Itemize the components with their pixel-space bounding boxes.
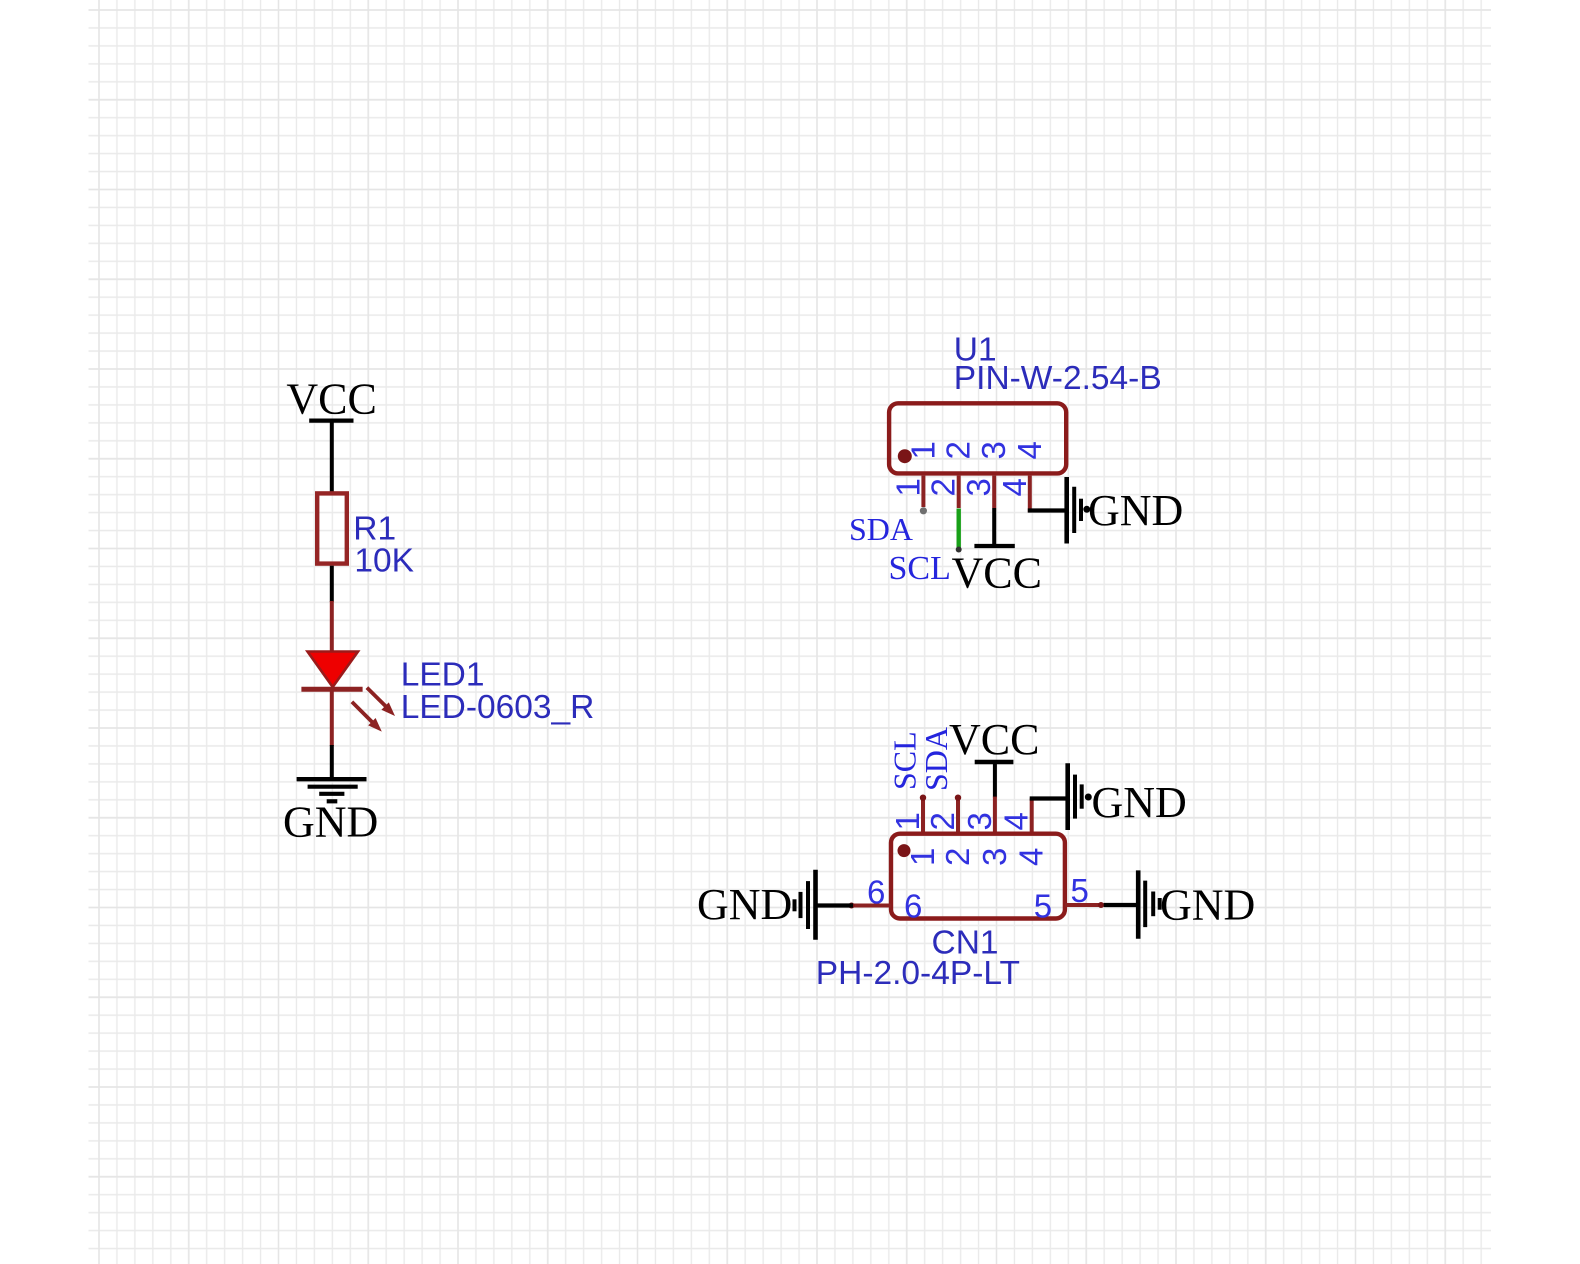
svg-text:PH-2.0-4P-LT: PH-2.0-4P-LT [816, 955, 1020, 992]
ground symbol (left) [297, 779, 367, 801]
svg-text:GND: GND [1092, 778, 1187, 827]
svg-text:PIN-W-2.54-B: PIN-W-2.54-B [954, 360, 1162, 397]
svg-text:4: 4 [998, 812, 1035, 830]
svg-text:LED-0603_R: LED-0603_R [401, 689, 595, 726]
CN1 pin 6 [849, 903, 892, 909]
svg-text:3: 3 [960, 478, 997, 496]
label 6 (outside) [867, 874, 885, 911]
wire LED1 to ground [330, 689, 334, 778]
wire VCC to CN1 pin3 [993, 762, 997, 798]
net label SDA [849, 511, 913, 547]
svg-text:LED1: LED1 [401, 656, 485, 693]
net label SCL [889, 550, 951, 587]
label GND (CN1 right) [1160, 881, 1255, 930]
wire pin4 to GND [1028, 508, 1065, 512]
svg-text:1: 1 [904, 848, 941, 866]
label LED-0603_R [401, 689, 595, 726]
connector U1 body [889, 403, 1066, 473]
svg-text:2: 2 [940, 441, 977, 459]
svg-text:GND: GND [1088, 486, 1183, 535]
svg-text:1: 1 [904, 441, 941, 459]
label VCC (left) [286, 374, 376, 423]
svg-text:10K: 10K [354, 542, 414, 579]
label GND (U1) [1088, 486, 1183, 535]
CN1 pin 5 [1065, 902, 1104, 908]
U1 pin 3 [992, 476, 996, 508]
svg-text:GND: GND [1160, 881, 1255, 930]
wire R1 to LED1 [330, 566, 334, 602]
svg-text:SCL: SCL [889, 550, 951, 587]
svg-text:4: 4 [1011, 441, 1048, 459]
svg-text:4: 4 [996, 478, 1033, 496]
svg-text:3: 3 [975, 441, 1012, 459]
wire CN1 pin6 to GND [816, 903, 854, 907]
net label SDA (rotated, CN1 pin2) [918, 727, 954, 791]
svg-text:GND: GND [697, 880, 792, 929]
U1 pin 1 [920, 476, 927, 515]
label CN1 [932, 925, 999, 962]
U1 pin 2 [957, 476, 961, 508]
svg-text:6: 6 [867, 874, 885, 911]
label U1 [954, 331, 997, 368]
ground symbol (CN1 right) [1138, 870, 1160, 938]
power symbol VCC (left) [309, 419, 353, 423]
svg-text:1: 1 [889, 812, 926, 830]
svg-text:2: 2 [939, 848, 976, 866]
svg-text:3: 3 [976, 848, 1013, 866]
label VCC (U1) [952, 549, 1042, 598]
label 5 (outside) [1071, 872, 1089, 909]
U1 pin 4 [1028, 476, 1032, 513]
LED LED1 [301, 652, 395, 732]
svg-text:VCC: VCC [949, 715, 1039, 764]
svg-text:SDA: SDA [849, 511, 913, 547]
svg-text:VCC: VCC [286, 374, 376, 423]
wire CN1 pin5 to GND [1104, 903, 1138, 907]
svg-text:3: 3 [961, 812, 998, 830]
label R1 [353, 511, 396, 548]
wire CN1 pin4 to GND [1030, 796, 1066, 800]
power symbol VCC (U1) [974, 544, 1014, 548]
pin wire LED1 anode [330, 601, 334, 653]
svg-text:2: 2 [924, 812, 961, 830]
svg-text:VCC: VCC [952, 549, 1042, 598]
label 5 (inside) [1034, 887, 1052, 924]
ground symbol (CN1 left) [795, 870, 816, 940]
wire VCC to R1 [330, 421, 334, 492]
ground symbol (U1) [1067, 477, 1091, 544]
svg-text:1: 1 [889, 478, 926, 496]
U1 pin numbers (inside) [904, 441, 1047, 459]
label PH-2.0-4P-LT [816, 955, 1020, 992]
power symbol VCC (CN1) [975, 760, 1014, 764]
CN1 pin 2 [955, 795, 961, 834]
label GND (left) [283, 798, 378, 847]
label LED1 [401, 656, 485, 693]
svg-text:6: 6 [904, 887, 922, 924]
wire SCL (green) [956, 509, 962, 553]
net label SCL (rotated, CN1 pin1) [887, 731, 923, 790]
connector CN1 body [891, 834, 1065, 919]
U1 pin-1 marker dot [898, 449, 912, 463]
U1 pin numbers (outside) [889, 478, 1032, 496]
svg-text:4: 4 [1013, 848, 1050, 866]
svg-text:5: 5 [1071, 872, 1089, 909]
CN1 pin numbers (inside top, rotated) [904, 848, 1050, 866]
CN1 pin 3 [993, 797, 997, 833]
CN1 pin 1 [920, 795, 926, 834]
label 10K [354, 542, 414, 579]
label GND (CN1 top) [1092, 778, 1187, 827]
svg-text:GND: GND [283, 798, 378, 847]
svg-text:2: 2 [925, 478, 962, 496]
CN1 pin-1 marker dot [898, 844, 911, 857]
label 6 (inside) [904, 887, 922, 924]
label GND (CN1 left) [697, 880, 792, 929]
ground symbol (CN1 top) [1068, 763, 1092, 830]
wire pin3 to VCC [992, 508, 996, 546]
label VCC (CN1) [949, 715, 1039, 764]
CN1 pin 4 [1030, 799, 1034, 834]
svg-text:5: 5 [1034, 887, 1052, 924]
resistor R1 [317, 493, 347, 563]
CN1 pin numbers (outside top) [889, 812, 1035, 830]
label PIN-W-2.54-B [954, 360, 1162, 397]
